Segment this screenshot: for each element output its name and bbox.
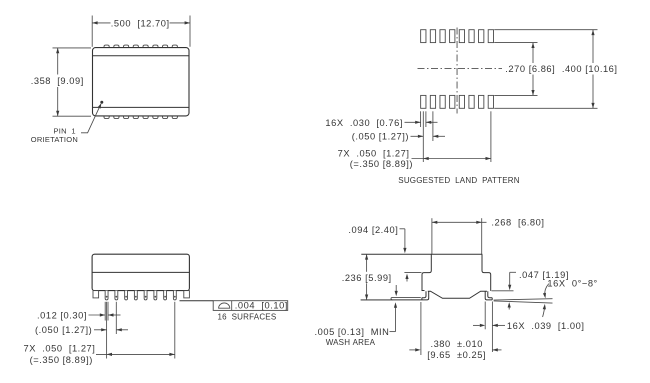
dimension text .012 [0.30] bbox=[37, 310, 87, 320]
caption SUGGESTED LAND PATTERN bbox=[398, 176, 519, 185]
dimension .270 [6.86] line and arrows bbox=[531, 43, 534, 96]
dimension 16X .030 [0.76] leader and arrows bbox=[405, 121, 438, 124]
svg-text:(.050 [1.27]): (.050 [1.27]) bbox=[35, 325, 92, 335]
label ORIETATION bbox=[31, 135, 78, 144]
dimension .358 [9.09] extension lines bbox=[53, 48, 92, 116]
pin width extension lines (.012) bbox=[105, 302, 108, 321]
svg-text:.500 [12.70]: .500 [12.70] bbox=[111, 18, 170, 28]
dimension .005 MIN arrows bbox=[390, 285, 398, 332]
dimension .236 [5.99] line and arrows bbox=[365, 254, 368, 300]
end view: bottom recess outline bbox=[428, 291, 487, 298]
dimension 16X .039 arrows bbox=[473, 324, 505, 327]
svg-text:SUGGESTED LAND PATTERN: SUGGESTED LAND PATTERN bbox=[398, 176, 519, 185]
svg-text:.004 [0.10]: .004 [0.10] bbox=[235, 301, 288, 311]
svg-text:(=.350 [8.89]): (=.350 [8.89]) bbox=[30, 355, 93, 365]
seating plane symbol (dome) bbox=[219, 303, 230, 308]
end view: body left profile bbox=[422, 254, 431, 290]
dimension .012 [0.30] leader and arrows bbox=[89, 313, 121, 316]
dimension text 16X .030 [0.76] bbox=[325, 118, 403, 128]
dimension .500 [12.70] extension lines bbox=[92, 16, 190, 47]
dimension (.050 [1.27]) leader and arrows side view bbox=[94, 328, 128, 331]
end view: top edge with left extension bbox=[361, 253, 482, 255]
dimension text 16X 0-8 degrees bbox=[547, 279, 597, 289]
dimension text [9.65 +/-0.25] bbox=[427, 350, 486, 360]
dimension text .270 [6.86] bbox=[503, 63, 558, 75]
top view: lower flange line bbox=[93, 106, 190, 108]
dimension .500 [12.70] line and arrows bbox=[92, 21, 190, 24]
svg-text:.012 [0.30]: .012 [0.30] bbox=[37, 310, 87, 320]
seating plane line to datum frame bbox=[180, 300, 214, 302]
pin 1 indicator dot bbox=[100, 101, 103, 104]
svg-text:16 SURFACES: 16 SURFACES bbox=[218, 313, 277, 322]
svg-text:[9.65 ±0.25]: [9.65 ±0.25] bbox=[427, 350, 486, 360]
dimension text .400 [10.16] bbox=[560, 63, 620, 75]
dimension text .380 +/-.010 bbox=[430, 339, 483, 349]
dimension text .005 [0.13] MIN bbox=[315, 327, 390, 337]
dimension text (.050 [1.27]) bbox=[352, 132, 409, 142]
feature control frame box bbox=[213, 301, 288, 311]
top view: upper flange line bbox=[93, 55, 190, 57]
land pattern: horizontal centerline bbox=[418, 67, 503, 69]
svg-text:.358 [9.09]: .358 [9.09] bbox=[31, 76, 84, 86]
svg-text:16X .030 [0.76]: 16X .030 [0.76] bbox=[325, 118, 403, 128]
side view: flange line bbox=[92, 271, 189, 273]
top view: body outline bbox=[93, 48, 190, 116]
svg-text:.094 [2.40]: .094 [2.40] bbox=[348, 225, 398, 235]
dimension text WASH AREA bbox=[326, 338, 376, 347]
side view: 8 gull-wing pins bbox=[105, 291, 176, 300]
dimension text .358 [9.09] bbox=[29, 75, 85, 88]
svg-text:7X .050 [1.27]: 7X .050 [1.27] bbox=[24, 343, 96, 353]
svg-text:16X .039 [1.00]: 16X .039 [1.00] bbox=[507, 321, 585, 331]
lead extension lines for .039 bbox=[485, 302, 492, 353]
svg-text:ORIETATION: ORIETATION bbox=[31, 135, 78, 144]
land pattern: bottom pad row (8 pads) bbox=[421, 95, 494, 108]
top view: pin bumps bottom edge bbox=[104, 114, 177, 119]
end view: 0 degree reference line bbox=[494, 299, 553, 300]
pin 1 leader line bbox=[81, 103, 101, 133]
svg-text:PIN 1: PIN 1 bbox=[54, 127, 76, 136]
dimension 7X .050 line and arrows bbox=[412, 157, 491, 160]
dimension text .094 [2.40] bbox=[348, 225, 398, 235]
dimension .047 [1.19] leader and arrows bbox=[492, 272, 517, 309]
dimension text .236 [5.99] bbox=[340, 272, 396, 284]
side view: right end tab bbox=[184, 291, 190, 298]
svg-text:WASH AREA: WASH AREA bbox=[326, 338, 376, 347]
land pattern: vertical centerline bbox=[456, 28, 458, 114]
dimension text 16X .039 [1.00] bbox=[507, 321, 585, 331]
label 16 SURFACES bbox=[218, 313, 277, 322]
svg-text:.400 [10.16]: .400 [10.16] bbox=[562, 64, 618, 74]
dimension text 7X .050 [1.27] side view bbox=[24, 343, 96, 353]
side view: body outline bbox=[92, 254, 189, 290]
top view: pin bumps top edge bbox=[104, 45, 177, 49]
land pattern: top pad row (8 pads) bbox=[421, 30, 494, 43]
datum text .004 [0.10] bbox=[235, 301, 288, 311]
end view: body right profile bbox=[482, 254, 491, 291]
svg-text:(.050 [1.27]): (.050 [1.27]) bbox=[352, 132, 409, 142]
seating plane extension line left bbox=[361, 299, 391, 301]
dimension text .047 [1.19] bbox=[519, 270, 569, 280]
dimension .094 [2.40] leader and arrows bbox=[400, 229, 409, 282]
dimension text 7X .050 [1.27] bbox=[338, 149, 410, 159]
dimension (.050 [1.27]) leader and arrows (pad pitch) bbox=[411, 135, 446, 138]
dimension text (=.350 [8.89]) side view bbox=[30, 355, 93, 365]
dimension text (=.350 [8.89]) bbox=[350, 159, 413, 169]
dimension .380 arrows bbox=[409, 348, 501, 351]
dimension text .500 [12.70] bbox=[111, 18, 170, 28]
step extension line bbox=[404, 272, 421, 274]
dimension .358 [9.09] line and arrows bbox=[56, 48, 59, 116]
side view: left end tab bbox=[93, 291, 99, 298]
dimension text (.050 [1.27]) side view bbox=[35, 325, 92, 335]
dimension 16X 0-8 degree arcs bbox=[543, 284, 549, 317]
svg-text:.270 [6.86]: .270 [6.86] bbox=[505, 64, 555, 74]
extension line left for .380 bbox=[420, 302, 422, 355]
svg-text:.236 [5.99]: .236 [5.99] bbox=[342, 273, 392, 283]
dimension 7X .050 line and arrows side view bbox=[96, 353, 175, 356]
end view: left lead (gull wing) bbox=[361, 291, 429, 300]
end view: .268 extension lines bbox=[432, 218, 482, 254]
pin 1 and pin 8 center extension lines bbox=[107, 302, 175, 359]
dimension .268 [6.80] line and arrows bbox=[432, 221, 487, 224]
svg-text:.268 [6.80]: .268 [6.80] bbox=[491, 218, 544, 228]
svg-text:(=.350 [8.89]): (=.350 [8.89]) bbox=[350, 159, 413, 169]
label PIN 1 bbox=[54, 127, 76, 136]
pad edge extension lines below pads bbox=[421, 111, 491, 162]
end view: right lead (gull wing) bbox=[485, 291, 492, 300]
dimension .400 [10.16] line and arrows bbox=[591, 30, 594, 109]
svg-text:16X 0°−8°: 16X 0°−8° bbox=[547, 279, 597, 289]
pin pitch extension line (pin 2) bbox=[115, 302, 117, 334]
svg-text:.380 ±.010: .380 ±.010 bbox=[430, 339, 483, 349]
svg-text:.005 [0.13] MIN: .005 [0.13] MIN bbox=[315, 327, 390, 337]
extension lines for .400 and .270 (right) bbox=[494, 30, 597, 109]
dimension text .268 [6.80] bbox=[491, 218, 544, 228]
end view: 8 degree splay line bbox=[494, 301, 553, 303]
svg-text:7X .050 [1.27]: 7X .050 [1.27] bbox=[338, 149, 410, 159]
